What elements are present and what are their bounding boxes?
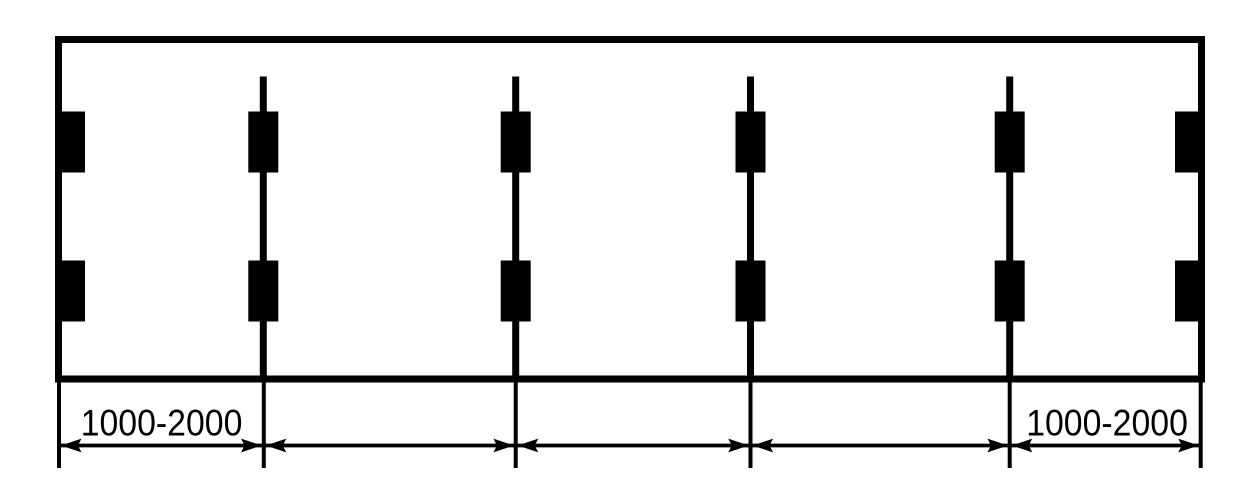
arrowhead seg5 left bbox=[1012, 439, 1033, 453]
post line 2 bbox=[512, 77, 519, 381]
pad left lower bbox=[55, 261, 85, 322]
extension line post 1 bbox=[262, 379, 266, 468]
pad post4 lower bbox=[995, 261, 1025, 322]
extension line post 3 bbox=[749, 379, 753, 468]
arrowhead seg4 left bbox=[753, 439, 774, 453]
svg-text:1000-2000: 1000-2000 bbox=[1026, 402, 1188, 444]
extension line post 2 bbox=[514, 379, 518, 468]
pad post2 lower bbox=[501, 261, 531, 322]
svg-text:1000-2000: 1000-2000 bbox=[81, 402, 243, 444]
arrowhead seg1 right bbox=[241, 439, 262, 453]
dimension line bbox=[59, 444, 1201, 448]
pad post2 upper bbox=[501, 112, 531, 173]
pad post1 lower bbox=[248, 261, 278, 322]
arrowhead seg4 right bbox=[987, 439, 1008, 453]
pad left upper bbox=[55, 112, 85, 173]
outer frame bbox=[59, 40, 1202, 380]
extension line left bbox=[57, 379, 61, 468]
extension line post 4 bbox=[1008, 379, 1012, 468]
arrowhead seg2 left bbox=[266, 439, 287, 453]
post line 3 bbox=[747, 77, 754, 381]
pad post3 upper bbox=[736, 112, 766, 173]
pad right lower bbox=[1175, 261, 1205, 322]
arrowhead seg5 right bbox=[1178, 439, 1199, 453]
pad right upper bbox=[1175, 112, 1205, 173]
pad post3 lower bbox=[736, 261, 766, 322]
arrowhead seg3 left bbox=[518, 439, 539, 453]
arrowhead seg3 right bbox=[728, 439, 749, 453]
arrowhead seg2 right bbox=[493, 439, 514, 453]
post line 4 bbox=[1006, 77, 1013, 381]
arrowhead seg1 left bbox=[61, 439, 82, 453]
pad post1 upper bbox=[248, 112, 278, 173]
post line 1 bbox=[260, 77, 267, 381]
pad post4 upper bbox=[995, 112, 1025, 173]
extension line right bbox=[1199, 379, 1203, 468]
